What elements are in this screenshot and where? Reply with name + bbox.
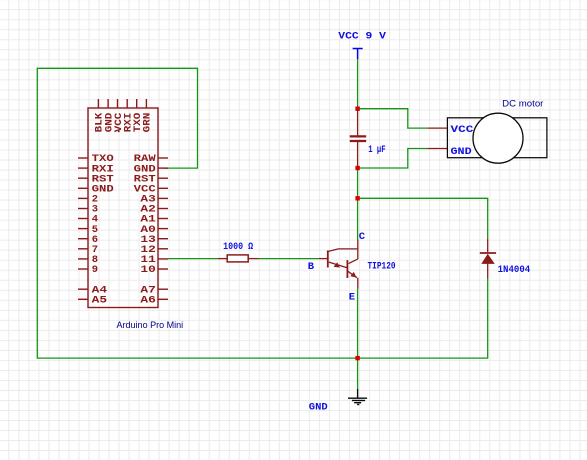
svg-text:1N4004: 1N4004 [498, 264, 531, 276]
svg-text:B: B [308, 261, 315, 273]
wire: node 3 to transistor collector [357, 198, 359, 239]
diode D1 1N4004 [480, 238, 496, 278]
Arduino right pin name labels [134, 153, 157, 306]
resistor R1 1000 ohm [218, 255, 259, 262]
transistor Q1 emitter arrows [334, 262, 357, 277]
svg-text:C: C [359, 231, 366, 243]
ground symbol [348, 389, 367, 405]
svg-text:A5: A5 [92, 295, 107, 307]
svg-text:GRN: GRN [142, 113, 154, 133]
transistor Q1 TIP120 (Darlington NPN) [319, 240, 358, 289]
svg-text:A6: A6 [140, 295, 155, 307]
junction node 4 (ground rail) [355, 356, 359, 360]
svg-text:TIP120: TIP120 [368, 260, 396, 272]
wire: ground rail to ground symbol [357, 358, 359, 389]
DC motor M1 [428, 113, 547, 163]
wire: Arduino GND pin loop to ground rail [37, 68, 357, 358]
svg-text:Arduino Pro Mini: Arduino Pro Mini [117, 320, 184, 331]
svg-text:VCC: VCC [451, 124, 475, 136]
wire: ground rail to diode anode [358, 279, 488, 359]
wire: node 2 to node 3 [357, 168, 359, 198]
junction node 1 [355, 107, 359, 111]
power symbol VCC [353, 49, 363, 60]
wire: VCC symbol to node 1 [357, 59, 359, 109]
svg-text:GND: GND [451, 146, 472, 158]
IC U1 Arduino Pro Mini body and pins [78, 99, 168, 308]
wire: transistor emitter to ground rail [357, 289, 359, 358]
wire: node 2 to motor GND pin [358, 149, 428, 169]
svg-text:1 µF: 1 µF [368, 144, 386, 156]
svg-text:GND: GND [309, 402, 328, 414]
svg-text:9: 9 [92, 264, 98, 276]
svg-text:VCC 9 V: VCC 9 V [338, 31, 386, 43]
svg-text:1000 Ω: 1000 Ω [223, 241, 254, 253]
svg-text:DC motor: DC motor [502, 99, 543, 110]
wire: node 1 to motor VCC pin [358, 109, 428, 128]
svg-text:10: 10 [140, 264, 155, 276]
junction node 3 [355, 196, 359, 200]
Arduino left pin name labels [92, 153, 114, 306]
wire: node 3 to diode cathode [358, 198, 488, 238]
wire: resistor to transistor base [259, 258, 319, 260]
junction node 2 [355, 166, 359, 170]
svg-text:E: E [349, 292, 355, 304]
capacitor C1 [350, 109, 366, 168]
wire: pin 11 to resistor [168, 258, 218, 260]
Arduino top pin name labels (rotated) [94, 112, 154, 132]
